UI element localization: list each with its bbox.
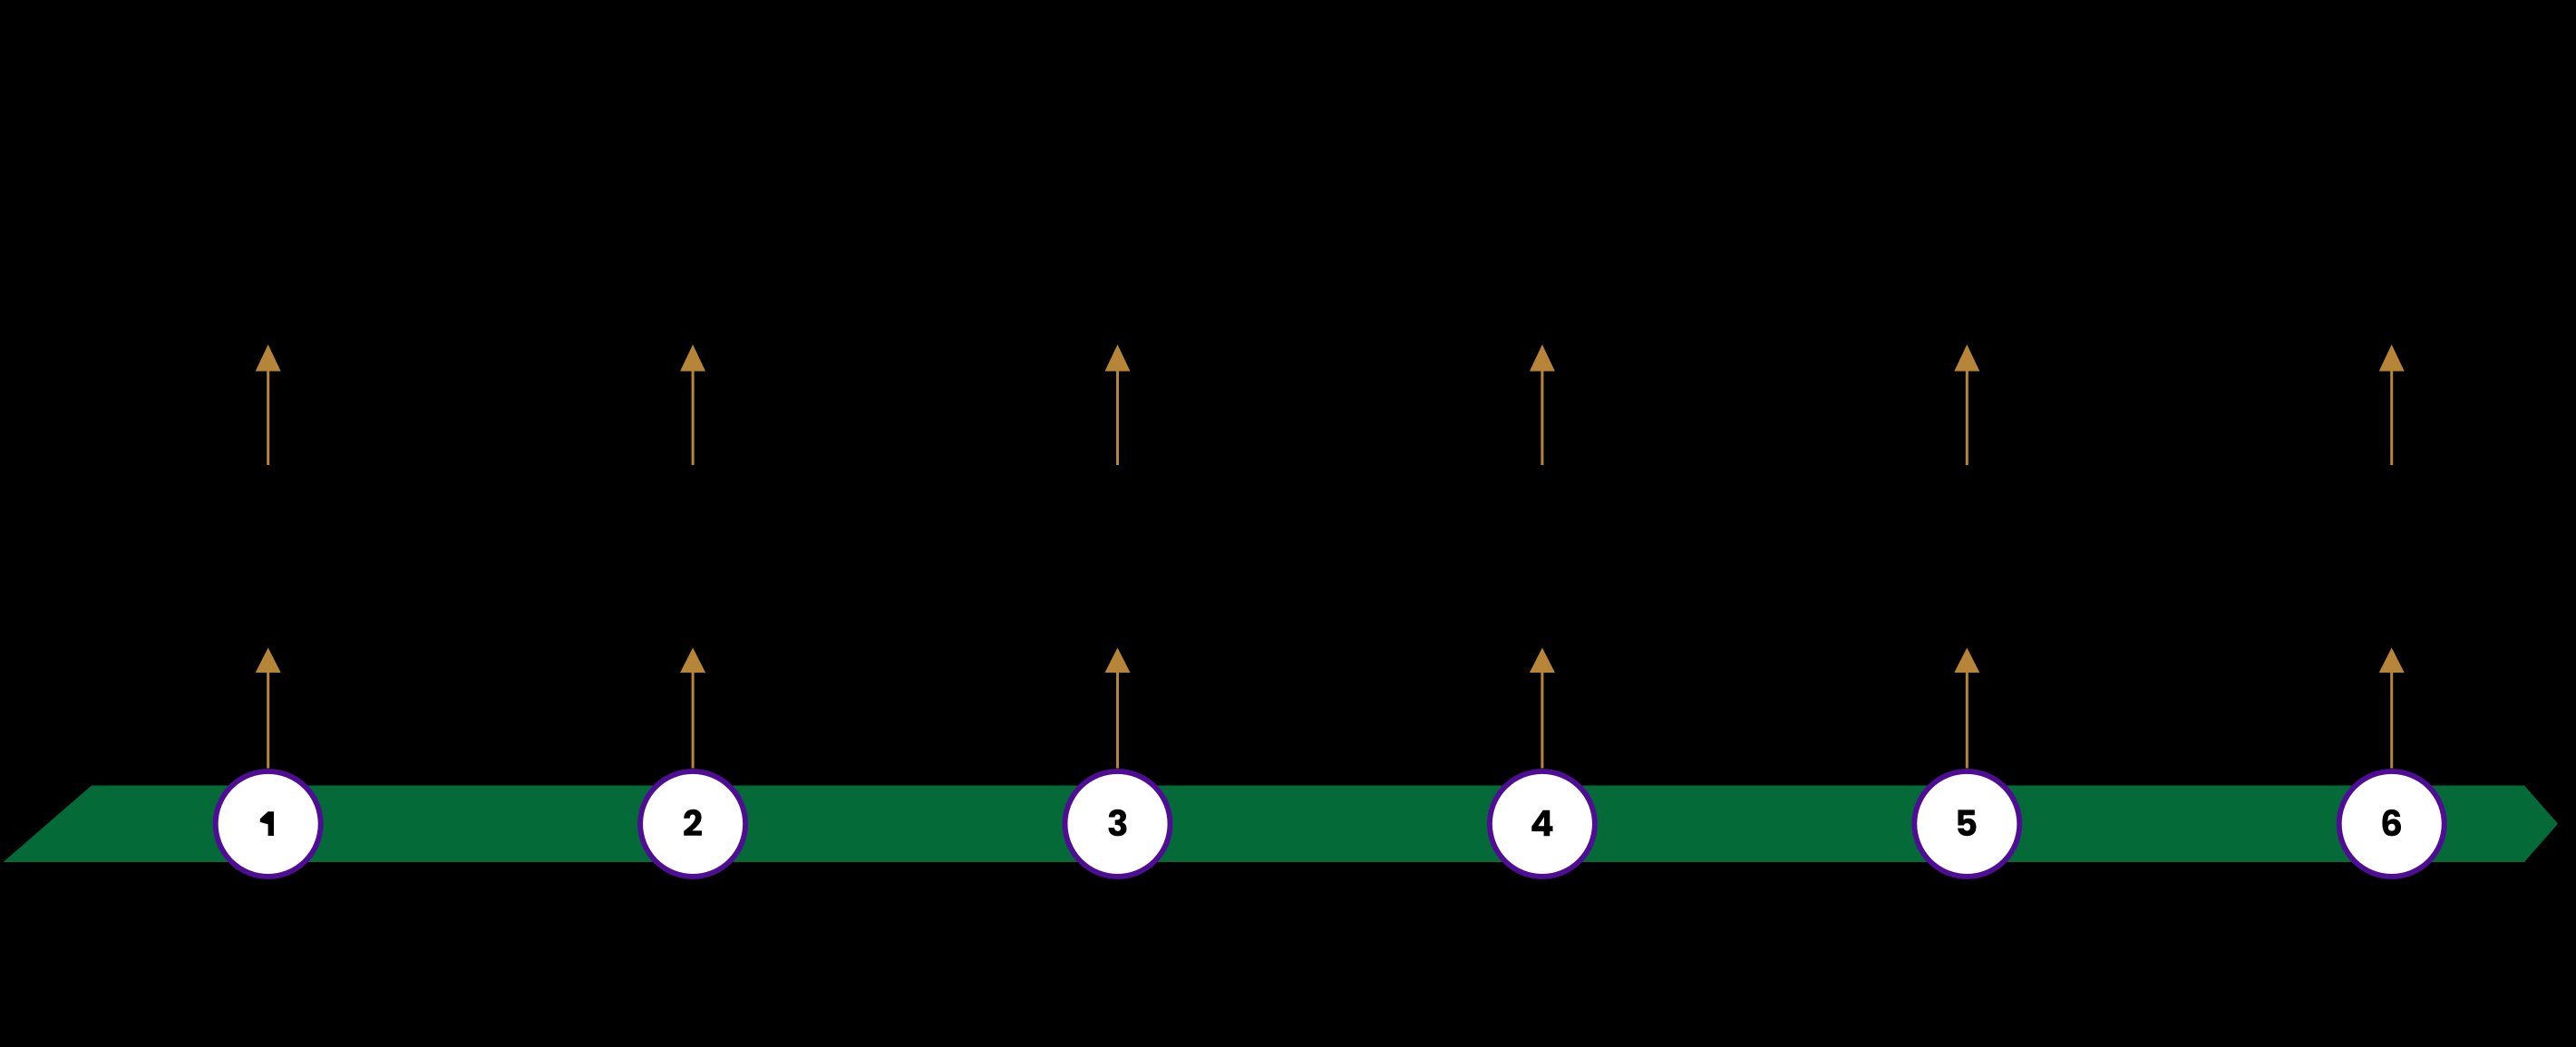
digit 1 bbox=[260, 811, 274, 836]
column 4 lower arrow bbox=[1530, 648, 1555, 769]
milestone circle 2 bbox=[640, 771, 745, 877]
column 2 upper arrow bbox=[680, 344, 705, 465]
column 1 lower arrow bbox=[256, 648, 281, 769]
column 6 lower arrow bbox=[2379, 648, 2405, 769]
digit 2 bbox=[684, 809, 702, 836]
digit 5 bbox=[1958, 809, 1976, 836]
milestone circle 5 bbox=[1914, 771, 2019, 877]
digit 6 bbox=[2382, 809, 2401, 837]
column 1 upper arrow bbox=[256, 344, 281, 465]
milestone circle 4 bbox=[1490, 771, 1595, 877]
column 6 upper arrow bbox=[2379, 344, 2405, 465]
column 5 upper arrow bbox=[1954, 344, 1979, 465]
digit 4 bbox=[1531, 810, 1552, 836]
column 5 lower arrow bbox=[1954, 648, 1979, 769]
column 2 lower arrow bbox=[680, 648, 705, 769]
column 4 upper arrow bbox=[1530, 344, 1555, 465]
timeline green arrow band bbox=[4, 786, 2559, 863]
milestone circle 3 bbox=[1065, 771, 1171, 877]
milestone circle 1 bbox=[216, 771, 321, 877]
column 3 upper arrow bbox=[1105, 344, 1131, 465]
milestone circle 6 bbox=[2339, 771, 2445, 877]
digit 3 bbox=[1108, 809, 1126, 837]
column 3 lower arrow bbox=[1105, 648, 1131, 769]
